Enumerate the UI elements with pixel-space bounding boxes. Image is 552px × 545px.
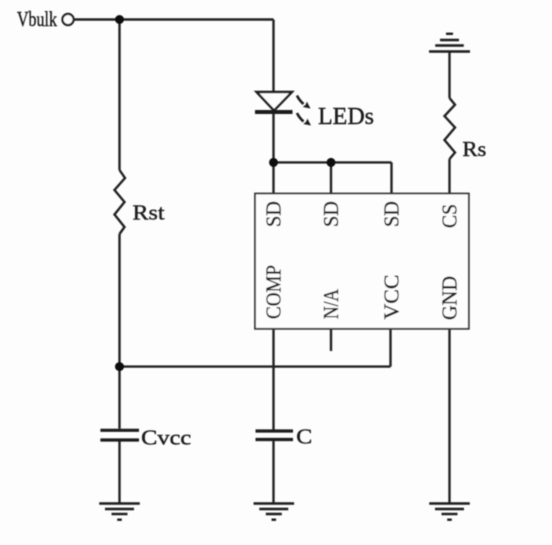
- svg-text:N/A: N/A: [319, 288, 343, 319]
- svg-text:SD: SD: [319, 201, 343, 227]
- svg-text:SD: SD: [262, 201, 286, 227]
- svg-text:CS: CS: [438, 204, 462, 228]
- svg-text:SD: SD: [380, 201, 404, 227]
- svg-text:Cvcc: Cvcc: [141, 426, 191, 450]
- svg-text:Rs: Rs: [462, 137, 486, 161]
- svg-text:Rst: Rst: [133, 201, 165, 225]
- svg-text:C: C: [296, 424, 312, 448]
- svg-text:COMP: COMP: [262, 265, 286, 319]
- svg-text:GND: GND: [438, 276, 462, 320]
- svg-text:Vbulk: Vbulk: [17, 7, 57, 31]
- svg-text:VCC: VCC: [380, 275, 404, 320]
- svg-text:LEDs: LEDs: [318, 104, 374, 130]
